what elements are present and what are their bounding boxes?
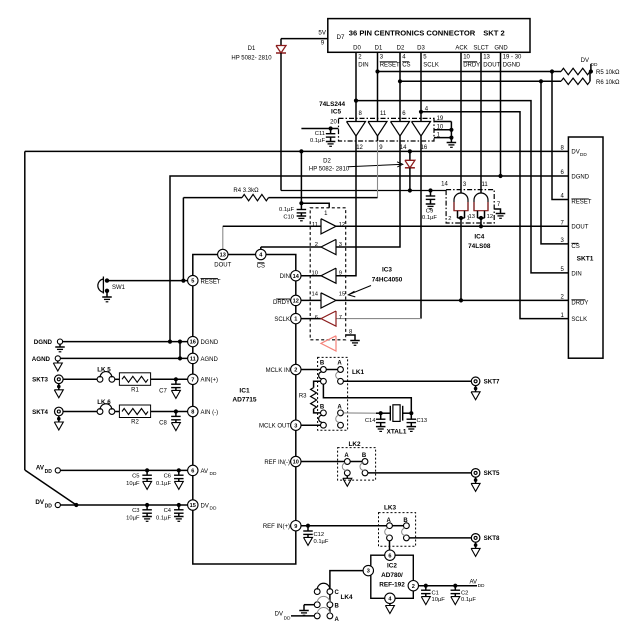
- svg-text:C6: C6: [164, 473, 171, 479]
- svg-text:3: 3: [294, 423, 297, 429]
- svg-text:0.1µF: 0.1µF: [461, 597, 476, 603]
- svg-text:D2: D2: [323, 159, 331, 165]
- svg-text:DV: DV: [571, 149, 579, 155]
- svg-text:15: 15: [190, 503, 196, 509]
- svg-text:10: 10: [293, 460, 299, 466]
- svg-text:DRDY: DRDY: [273, 300, 290, 306]
- svg-text:LK4: LK4: [341, 594, 354, 601]
- svg-text:2: 2: [412, 584, 415, 590]
- svg-text:AIN (-): AIN (-): [201, 410, 219, 416]
- svg-text:74LS244: 74LS244: [319, 101, 345, 108]
- svg-text:14: 14: [400, 145, 407, 151]
- svg-text:13: 13: [469, 214, 475, 220]
- svg-text:B: B: [320, 404, 325, 410]
- svg-text:DOUT: DOUT: [571, 225, 588, 231]
- svg-text:DRDY: DRDY: [463, 63, 480, 69]
- svg-text:2: 2: [315, 242, 318, 248]
- svg-text:DV: DV: [275, 611, 283, 617]
- svg-text:AV: AV: [36, 464, 45, 471]
- svg-text:DD: DD: [580, 152, 587, 158]
- svg-text:20: 20: [330, 120, 337, 126]
- svg-text:C5: C5: [132, 473, 139, 479]
- svg-text:R6 10kΩ: R6 10kΩ: [596, 80, 620, 86]
- svg-text:DD: DD: [45, 469, 53, 475]
- svg-text:D3: D3: [417, 45, 425, 51]
- svg-text:DD: DD: [210, 506, 217, 512]
- svg-text:7: 7: [339, 315, 342, 321]
- svg-text:SKT4: SKT4: [32, 409, 48, 416]
- svg-text:13: 13: [220, 253, 226, 259]
- svg-text:R4 3.3kΩ: R4 3.3kΩ: [233, 188, 259, 194]
- svg-text:D0: D0: [353, 45, 361, 51]
- svg-text:AGND: AGND: [32, 356, 51, 363]
- svg-text:19 - 30: 19 - 30: [503, 55, 522, 61]
- svg-text:12: 12: [487, 214, 493, 220]
- svg-text:11: 11: [481, 182, 488, 188]
- svg-text:10µF: 10µF: [126, 481, 140, 487]
- svg-text:DV: DV: [35, 499, 44, 506]
- svg-text:SKT3: SKT3: [32, 377, 48, 384]
- svg-text:5V: 5V: [318, 30, 326, 37]
- svg-text:ACK: ACK: [455, 45, 467, 51]
- svg-text:IC3: IC3: [382, 267, 392, 274]
- svg-text:B: B: [320, 360, 325, 366]
- svg-text:14: 14: [312, 291, 319, 297]
- svg-text:10: 10: [463, 55, 470, 61]
- svg-text:12: 12: [293, 299, 299, 305]
- svg-text:C8: C8: [159, 421, 167, 427]
- svg-text:C3: C3: [132, 508, 139, 514]
- svg-text:CS: CS: [571, 244, 579, 250]
- svg-text:DD: DD: [478, 583, 485, 589]
- svg-text:C14: C14: [365, 418, 376, 424]
- svg-text:6: 6: [191, 469, 194, 475]
- svg-text:SLCT: SLCT: [473, 45, 489, 51]
- svg-text:14: 14: [441, 181, 448, 187]
- svg-text:16: 16: [190, 340, 196, 346]
- svg-text:13: 13: [483, 55, 490, 61]
- svg-text:0.1µF: 0.1µF: [156, 481, 171, 487]
- svg-text:DOUT: DOUT: [483, 63, 500, 69]
- svg-text:9: 9: [321, 39, 325, 46]
- svg-text:10: 10: [437, 125, 444, 131]
- svg-text:XTAL1: XTAL1: [387, 429, 407, 436]
- svg-text:12: 12: [356, 145, 363, 151]
- svg-text:10µF: 10µF: [432, 597, 446, 603]
- svg-text:AGND: AGND: [201, 357, 219, 363]
- svg-text:SCLK: SCLK: [423, 63, 439, 69]
- svg-text:MCLK IN: MCLK IN: [266, 368, 290, 374]
- svg-text:LK3: LK3: [384, 505, 397, 512]
- svg-text:8: 8: [191, 410, 194, 416]
- svg-text:C7: C7: [159, 388, 167, 394]
- svg-text:AIN(+): AIN(+): [201, 378, 219, 384]
- svg-text:C1: C1: [432, 590, 439, 596]
- svg-text:C: C: [335, 590, 340, 596]
- svg-text:C12: C12: [314, 532, 325, 538]
- svg-text:19: 19: [437, 116, 444, 122]
- svg-text:REF IN(+): REF IN(+): [263, 524, 290, 530]
- svg-text:2: 2: [448, 216, 451, 222]
- svg-text:LK1: LK1: [352, 369, 365, 376]
- svg-text:0.1µF: 0.1µF: [314, 539, 329, 545]
- svg-text:C10: C10: [283, 215, 294, 221]
- svg-text:REF IN(-): REF IN(-): [264, 460, 290, 466]
- svg-text:C11: C11: [315, 131, 325, 137]
- svg-text:15: 15: [339, 291, 345, 297]
- svg-text:A: A: [337, 360, 342, 366]
- svg-text:C13: C13: [417, 418, 428, 424]
- svg-text:IC1: IC1: [239, 388, 250, 395]
- svg-text:D1: D1: [248, 46, 256, 52]
- svg-text:DOUT: DOUT: [214, 263, 231, 269]
- svg-text:7: 7: [191, 377, 194, 383]
- svg-text:DV: DV: [201, 503, 209, 509]
- svg-text:DV: DV: [581, 58, 589, 64]
- svg-text:11: 11: [190, 357, 196, 363]
- svg-text:9: 9: [294, 524, 297, 530]
- svg-text:AV: AV: [201, 469, 209, 475]
- svg-text:0.1µF: 0.1µF: [422, 215, 437, 221]
- svg-text:R1: R1: [131, 387, 139, 393]
- svg-text:D1: D1: [375, 45, 383, 51]
- svg-text:RESET: RESET: [571, 200, 591, 206]
- svg-text:RESET: RESET: [201, 279, 221, 285]
- svg-text:D2: D2: [397, 45, 405, 51]
- svg-text:6: 6: [388, 553, 391, 559]
- svg-text:R3: R3: [299, 393, 307, 399]
- svg-text:DRDY: DRDY: [571, 301, 588, 307]
- svg-text:R2: R2: [131, 420, 139, 426]
- svg-text:DGND: DGND: [571, 174, 589, 180]
- svg-text:AD780/: AD780/: [381, 572, 403, 579]
- svg-text:SCLK: SCLK: [571, 317, 587, 323]
- svg-text:GND: GND: [494, 45, 508, 51]
- svg-text:HP 5082- 2810: HP 5082- 2810: [309, 166, 350, 172]
- svg-text:R5 10kΩ: R5 10kΩ: [596, 70, 620, 76]
- svg-text:B: B: [335, 603, 340, 609]
- svg-text:DD: DD: [591, 62, 598, 68]
- svg-text:IC4: IC4: [474, 234, 484, 241]
- svg-text:SCLK: SCLK: [274, 317, 290, 323]
- svg-text:10: 10: [312, 271, 318, 277]
- svg-text:2: 2: [294, 368, 297, 374]
- svg-text:LK2: LK2: [348, 441, 361, 448]
- svg-text:SKT5: SKT5: [484, 470, 500, 477]
- svg-text:11: 11: [380, 111, 387, 117]
- svg-text:DD: DD: [45, 504, 53, 510]
- svg-text:DGND: DGND: [201, 340, 219, 346]
- svg-text:SKT8: SKT8: [484, 535, 500, 542]
- svg-text:10µF: 10µF: [126, 515, 140, 521]
- svg-text:RESET: RESET: [380, 63, 400, 69]
- svg-text:6: 6: [315, 315, 318, 321]
- svg-text:DGND: DGND: [34, 339, 53, 346]
- svg-text:MCLK OUT: MCLK OUT: [259, 424, 290, 430]
- svg-text:IC2: IC2: [387, 563, 397, 570]
- svg-text:B: B: [362, 453, 367, 459]
- svg-text:D7: D7: [337, 34, 345, 41]
- svg-text:0.1µF: 0.1µF: [310, 138, 325, 144]
- svg-text:0.1µF: 0.1µF: [156, 515, 171, 521]
- svg-text:1: 1: [294, 317, 297, 323]
- svg-text:5: 5: [191, 279, 194, 285]
- svg-text:0.1µF: 0.1µF: [279, 207, 294, 213]
- svg-text:36 PIN CENTRONICS CONNECTOR: 36 PIN CENTRONICS CONNECTOR: [349, 29, 476, 38]
- svg-text:C4: C4: [164, 508, 172, 514]
- svg-text:11: 11: [312, 222, 318, 228]
- svg-text:SKT1: SKT1: [577, 256, 594, 263]
- svg-text:SKT 2: SKT 2: [483, 29, 505, 38]
- svg-text:DD: DD: [284, 616, 291, 622]
- svg-text:12: 12: [339, 222, 345, 228]
- svg-text:DIN: DIN: [358, 63, 368, 69]
- svg-text:CS: CS: [257, 264, 265, 270]
- svg-text:C2: C2: [461, 590, 468, 596]
- svg-text:A: A: [335, 617, 340, 623]
- svg-text:SW1: SW1: [112, 285, 126, 291]
- svg-text:DIN: DIN: [571, 271, 581, 277]
- svg-text:14: 14: [293, 274, 300, 280]
- svg-text:C9: C9: [426, 209, 433, 215]
- svg-text:3: 3: [367, 569, 370, 575]
- svg-text:DIN: DIN: [280, 274, 290, 280]
- svg-text:DD: DD: [210, 471, 217, 477]
- svg-text:CS: CS: [402, 63, 410, 69]
- svg-text:9: 9: [339, 271, 342, 277]
- svg-text:DGND: DGND: [503, 63, 521, 69]
- svg-text:74LS08: 74LS08: [468, 243, 491, 250]
- svg-text:HP 5082- 2810: HP 5082- 2810: [231, 55, 272, 61]
- svg-text:REF-192: REF-192: [379, 581, 405, 588]
- svg-text:3: 3: [339, 242, 342, 248]
- svg-text:AD7715: AD7715: [232, 396, 257, 403]
- svg-text:IC5: IC5: [331, 108, 341, 115]
- svg-text:SKT7: SKT7: [484, 378, 500, 385]
- svg-text:74HC4050: 74HC4050: [372, 277, 403, 284]
- svg-text:AV: AV: [469, 579, 477, 585]
